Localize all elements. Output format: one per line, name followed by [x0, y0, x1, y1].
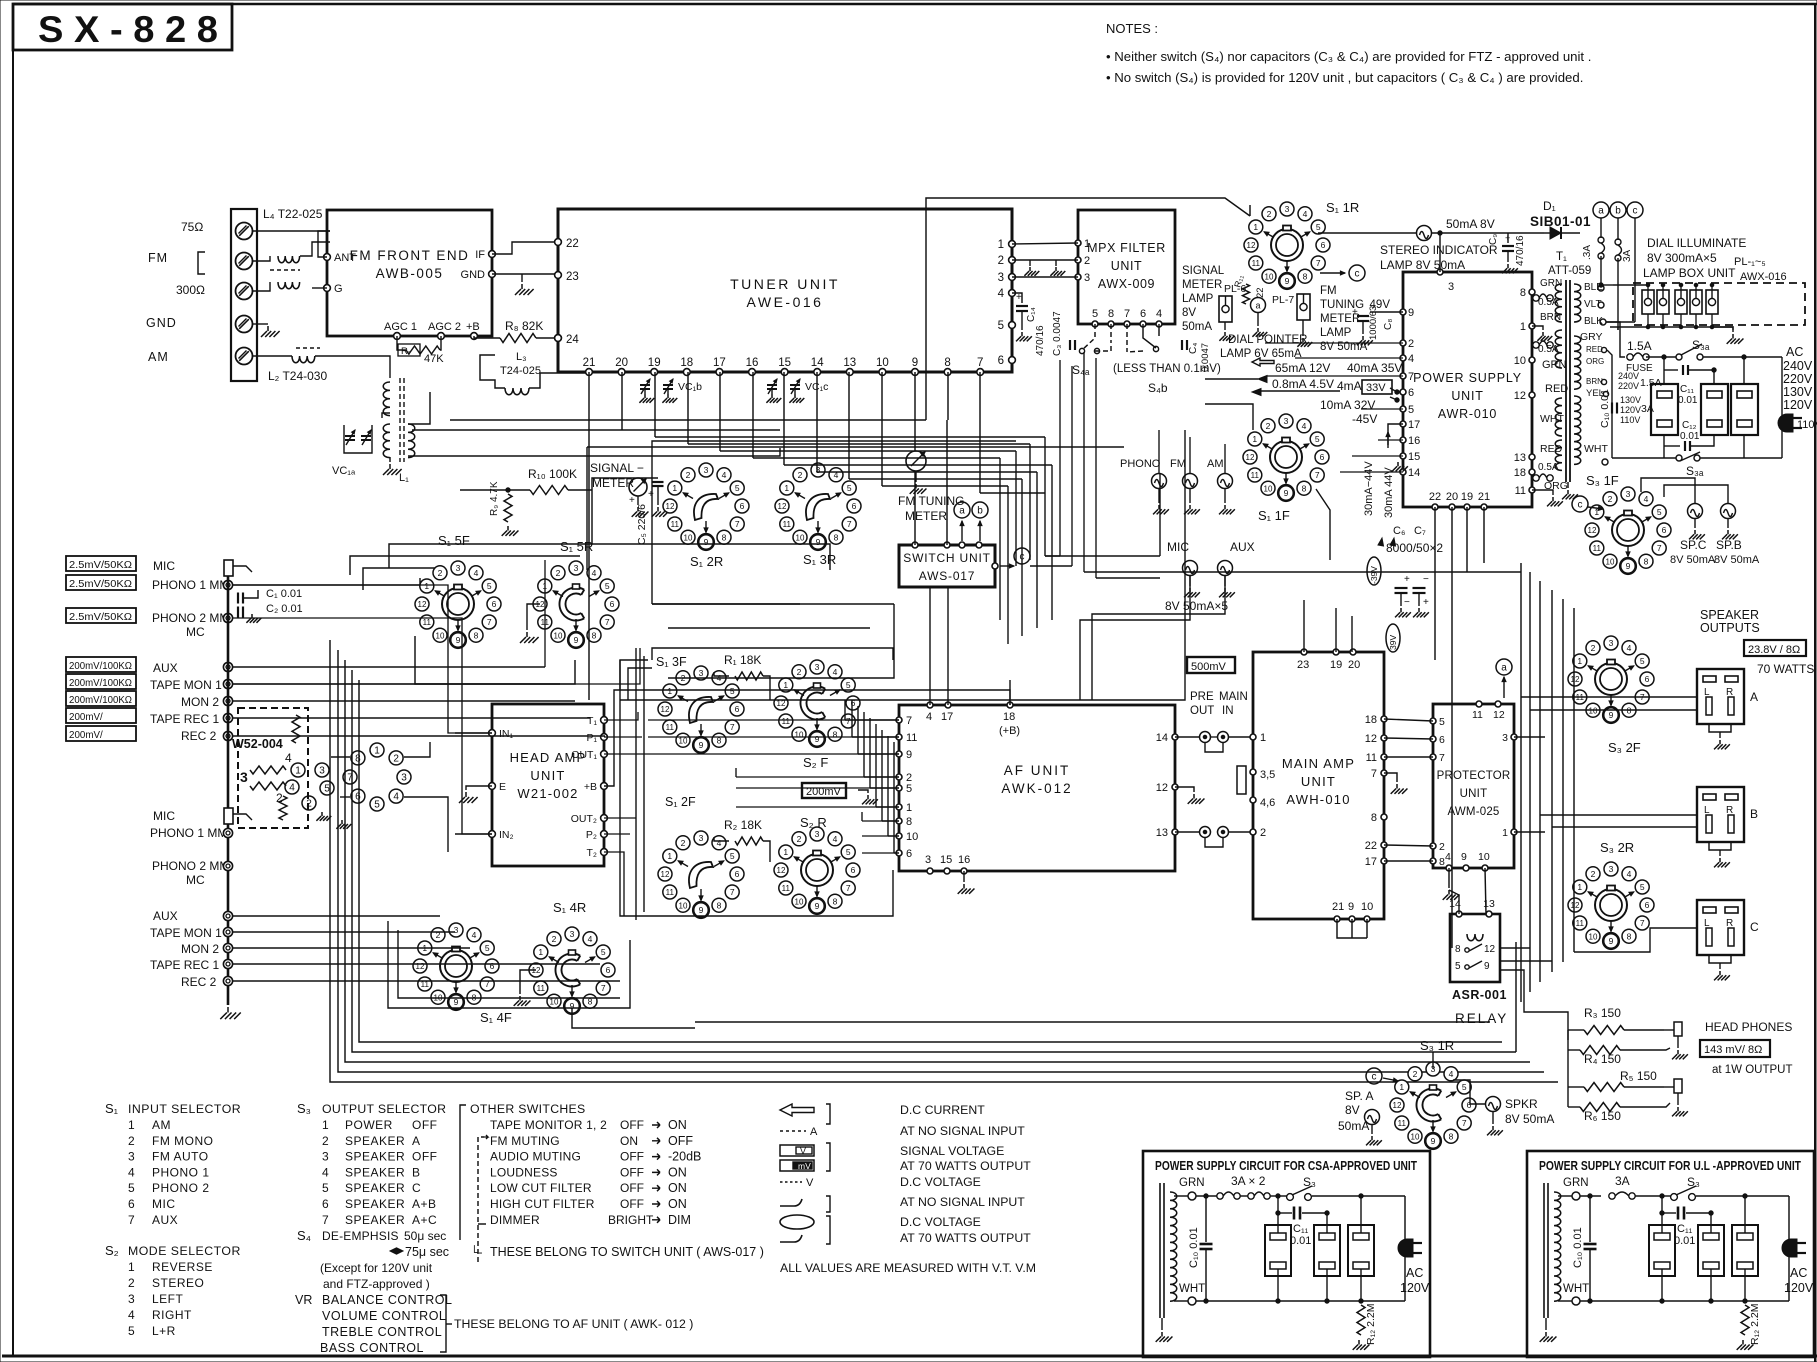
svg-text:LAMP 8V 50mA: LAMP 8V 50mA [1380, 258, 1465, 272]
svg-text:AUX: AUX [152, 1213, 178, 1227]
svg-text:R₁₀ 100K: R₁₀ 100K [528, 467, 577, 481]
ground main amp 7 [1384, 773, 1397, 782]
svg-text:MON 2: MON 2 [181, 695, 219, 709]
psu C10 cap [1204, 1194, 1208, 1198]
speaker box C [1697, 900, 1744, 955]
svg-text:S₁ 4R: S₁ 4R [553, 900, 586, 915]
svg-text:GND: GND [146, 316, 177, 330]
svg-text:300Ω: 300Ω [176, 283, 205, 297]
svg-text:6: 6 [735, 704, 740, 714]
svg-text:AT NO SIGNAL INPUT: AT NO SIGNAL INPUT [900, 1124, 1025, 1138]
svg-text:1: 1 [128, 1260, 135, 1274]
svg-text:PL-₁~₅: PL-₁~₅ [1734, 256, 1766, 268]
svg-text:SPEAKER: SPEAKER [1700, 608, 1759, 622]
svg-text:120V: 120V [1400, 1281, 1430, 1295]
svg-text:6: 6 [610, 599, 615, 609]
wire S4a area verticals down [1059, 360, 1061, 556]
svg-text:7: 7 [906, 715, 912, 727]
svg-text:PHONO 2 MM: PHONO 2 MM [152, 611, 229, 625]
svg-text:15: 15 [1408, 451, 1420, 463]
svg-text:S₁ 2F: S₁ 2F [665, 795, 696, 809]
svg-text:8: 8 [833, 896, 838, 906]
svg-text:4: 4 [472, 930, 477, 940]
switch symbols near pin 6 [1395, 390, 1399, 394]
svg-text:POWER: POWER [345, 1118, 393, 1132]
svg-text:12: 12 [1493, 709, 1505, 721]
power supply unit AWR-010 [1403, 272, 1532, 507]
svg-text:SPKR: SPKR [1505, 1097, 1538, 1111]
svg-text:5: 5 [1455, 961, 1461, 972]
power supply bottom pins [1432, 504, 1438, 510]
svg-text:12: 12 [1246, 453, 1255, 462]
wires main amp to protector [1384, 719, 1433, 721]
svg-text:2: 2 [1260, 827, 1266, 839]
svg-text:SP. A: SP. A [1345, 1089, 1373, 1103]
svg-text:8: 8 [1302, 483, 1307, 493]
svg-text:S₃ 1R: S₃ 1R [1420, 1038, 1454, 1053]
svg-text:OUTPUT SELECTOR: OUTPUT SELECTOR [322, 1102, 446, 1116]
capacitors C1 C2 [237, 593, 239, 604]
svg-text:7: 7 [322, 1213, 329, 1227]
wire bundle tops to S3 1F [1487, 560, 1521, 563]
svg-text:UNIT: UNIT [1460, 788, 1488, 800]
svg-text:c: c [1578, 500, 1583, 511]
svg-text:220V: 220V [1618, 381, 1639, 391]
svg-text:240V: 240V [1618, 371, 1639, 381]
svg-text:.3A: .3A [1582, 245, 1593, 260]
svg-text:50mA: 50mA [1338, 1119, 1369, 1133]
svg-text:11: 11 [1515, 485, 1526, 497]
svg-text:8V 50mA: 8V 50mA [1670, 554, 1716, 566]
svg-text:ATT-059: ATT-059 [1548, 265, 1591, 277]
svg-text:2.5mV/50KΩ: 2.5mV/50KΩ [69, 612, 132, 623]
svg-text:10: 10 [906, 831, 918, 843]
wire verticals feeding AF pins [844, 700, 846, 720]
protector unit AWM-025 [1433, 704, 1514, 868]
svg-text:47K: 47K [424, 353, 444, 365]
svg-text:10: 10 [679, 736, 688, 745]
svg-text:2: 2 [681, 838, 686, 848]
svg-text:9: 9 [704, 537, 709, 547]
svg-text:FM MUTING: FM MUTING [490, 1134, 560, 1148]
svg-text:MON 2: MON 2 [181, 942, 219, 956]
wire speakers A B C feeds [1574, 928, 1697, 952]
svg-text:1: 1 [667, 686, 672, 696]
svg-text:LEFT: LEFT [152, 1292, 184, 1306]
svg-text:33V: 33V [1366, 382, 1386, 394]
svg-text:R₁ 18K: R₁ 18K [724, 653, 761, 667]
svg-text:4: 4 [1644, 494, 1649, 504]
svg-text:4: 4 [1627, 643, 1632, 653]
svg-text:12: 12 [1393, 1101, 1402, 1110]
svg-text:AUX: AUX [153, 909, 178, 923]
main amp bottom pins [1334, 916, 1340, 922]
svg-text:8V 300mA×5: 8V 300mA×5 [1647, 251, 1717, 265]
wire S1 1F loop bottom [1079, 620, 1081, 700]
svg-text:39V: 39V [1388, 635, 1398, 650]
svg-text:R₄ 150: R₄ 150 [1584, 1052, 1621, 1066]
svg-text:1: 1 [1084, 238, 1090, 250]
svg-text:└-: └- [470, 1245, 483, 1259]
svg-text:GND: GND [461, 269, 486, 281]
svg-text:3: 3 [1502, 732, 1508, 744]
trimmer VC1a [344, 425, 372, 453]
svg-text:S₁ 2R: S₁ 2R [690, 554, 723, 569]
legend dc current arrow [780, 1104, 814, 1116]
svg-text:PHONO 1 MM: PHONO 1 MM [150, 826, 227, 840]
svg-text:AUX: AUX [1230, 540, 1255, 554]
8-pin wires [331, 756, 350, 758]
FM front end unit AWB-005 [327, 210, 492, 336]
svg-text:BASS CONTROL: BASS CONTROL [320, 1341, 424, 1355]
svg-text:T24-025: T24-025 [500, 365, 541, 377]
wire relay to headphones [1500, 970, 1568, 1040]
svg-text:6: 6 [1321, 240, 1326, 250]
wire AF left pin feeds [648, 719, 899, 721]
svg-text:NOTES :: NOTES : [1106, 21, 1158, 36]
svg-text:1: 1 [667, 851, 672, 861]
svg-text:PRE: PRE [1190, 691, 1214, 703]
svg-text:RED: RED [1545, 383, 1568, 395]
svg-text:9: 9 [912, 357, 918, 369]
wire b fuse to BLK [1617, 327, 1619, 330]
svg-text:10: 10 [1478, 851, 1490, 863]
svg-text:4: 4 [588, 934, 593, 944]
wire S1 1F loop left [1045, 555, 1160, 557]
svg-text:FM: FM [148, 251, 168, 265]
svg-text:11: 11 [1593, 544, 1602, 553]
psu lamp boxes [1265, 1225, 1291, 1276]
svg-text:3: 3 [925, 854, 931, 866]
switch unit AWS-017 [899, 545, 995, 587]
svg-text:3: 3 [1609, 864, 1614, 874]
svg-text:120V: 120V [1784, 1281, 1814, 1295]
svg-text:S₃ 2F: S₃ 2F [1608, 740, 1641, 755]
svg-text:3: 3 [454, 925, 459, 935]
mic arrow lower [233, 814, 252, 820]
svg-text:22: 22 [1429, 491, 1441, 503]
wire right vertical bundle [1520, 563, 1522, 1002]
svg-text:10: 10 [796, 533, 805, 542]
switch S4a dashed [1082, 324, 1095, 350]
svg-text:OFF: OFF [668, 1134, 693, 1148]
svg-text:2: 2 [1591, 643, 1596, 653]
svg-text:C₈: C₈ [1383, 319, 1394, 330]
svg-text:9: 9 [1284, 488, 1289, 498]
AF unit bottom pins [927, 868, 933, 874]
svg-text:9: 9 [1408, 307, 1414, 319]
svg-text:200mV/100KΩ: 200mV/100KΩ [69, 678, 132, 689]
wire phono mic feeds upper [233, 578, 420, 585]
svg-text:1: 1 [783, 680, 788, 690]
wire phono lower feeds [233, 832, 455, 833]
svg-text:6: 6 [1439, 734, 1445, 746]
psu bottom bus [1580, 1300, 1789, 1302]
svg-text:18: 18 [1514, 467, 1526, 479]
rotary switch S1 2F [663, 849, 677, 863]
svg-text:1: 1 [1502, 827, 1508, 839]
svg-text:8: 8 [1644, 556, 1649, 566]
psu C10 cap [1588, 1194, 1592, 1198]
psu transformer [1543, 1183, 1545, 1318]
svg-text:G: G [334, 283, 343, 295]
svg-text:LAMP BOX UNIT: LAMP BOX UNIT [1643, 266, 1736, 280]
svg-text:c: c [1355, 269, 1360, 280]
svg-text:70 WATTS: 70 WATTS [1757, 662, 1814, 676]
svg-text:19: 19 [648, 357, 661, 369]
svg-text:11: 11 [1398, 1119, 1407, 1128]
svg-text:AWE-016: AWE-016 [747, 294, 824, 310]
svg-text:11: 11 [666, 723, 675, 732]
svg-text:ON: ON [668, 1118, 687, 1132]
svg-text:8: 8 [1108, 308, 1114, 320]
wires head amp in [455, 732, 492, 734]
svg-text:OUTPUTS: OUTPUTS [1700, 621, 1760, 635]
T1 left winding [1555, 284, 1562, 322]
svg-text:TUNER UNIT: TUNER UNIT [730, 276, 840, 292]
svg-text:REC 2: REC 2 [181, 729, 217, 743]
resistor R9 4.7K [506, 488, 510, 492]
svg-text:OFF: OFF [620, 1197, 644, 1211]
svg-text:VLT: VLT [1584, 299, 1602, 310]
svg-text:AWS-017: AWS-017 [919, 569, 976, 583]
svg-text:S₂ F: S₂ F [803, 755, 828, 770]
svg-text:5: 5 [485, 943, 490, 953]
svg-text:7: 7 [847, 519, 852, 529]
svg-text:6: 6 [606, 965, 611, 975]
svg-text:+: + [1016, 292, 1022, 303]
AC plug [1778, 414, 1793, 432]
routing rectangle S1 2R 3R group [652, 441, 1016, 604]
svg-text:8V: 8V [1182, 307, 1196, 319]
speaker rating box [1744, 640, 1806, 656]
svg-text:UNIT: UNIT [1111, 259, 1143, 273]
svg-text:HIGH CUT FILTER: HIGH CUT FILTER [490, 1197, 595, 1211]
svg-text:C₁₀ 0.01: C₁₀ 0.01 [1572, 1227, 1584, 1268]
svg-text:FM: FM [1320, 285, 1337, 297]
svg-text:12: 12 [1514, 390, 1526, 402]
svg-text:+B: +B [466, 321, 480, 333]
psu lamp wires [1277, 1213, 1279, 1233]
svg-text:8: 8 [1371, 812, 1377, 824]
svg-text:LOW CUT FILTER: LOW CUT FILTER [490, 1181, 592, 1195]
svg-text:15: 15 [940, 854, 952, 866]
svg-text:AUX: AUX [153, 661, 178, 675]
rotary switch S1 4F [418, 941, 432, 955]
svg-text:IF: IF [475, 249, 485, 261]
ground S1 5R pin12 [527, 604, 540, 630]
svg-text:ON: ON [668, 1181, 687, 1195]
AF unit AWK-012 [899, 705, 1175, 871]
svg-text:S₃ 2R: S₃ 2R [1600, 840, 1634, 855]
wire head amp T P OUT to 3F [604, 712, 638, 720]
svg-text:0.01: 0.01 [1674, 1235, 1695, 1247]
svg-text:W52-004: W52-004 [232, 737, 283, 751]
terminal c arrow from S1 1R [1320, 272, 1345, 274]
svg-text:8: 8 [1627, 931, 1632, 941]
svg-text:C₁₄: C₁₄ [1026, 307, 1037, 322]
svg-text:(Except for 120V unit: (Except for 120V unit [320, 1261, 433, 1275]
svg-text:5: 5 [1439, 716, 1445, 728]
svg-text:T₁: T₁ [587, 715, 597, 727]
svg-text:9: 9 [1431, 1136, 1436, 1146]
svg-text:2: 2 [998, 255, 1004, 267]
svg-text:OFF: OFF [620, 1181, 644, 1195]
svg-text:3: 3 [240, 769, 248, 785]
svg-text:LAMP 6V 65mA: LAMP 6V 65mA [1220, 348, 1302, 360]
ground right of 200mV box [858, 790, 868, 793]
svg-text:7: 7 [1640, 918, 1645, 928]
svg-text:LAMP: LAMP [1182, 293, 1214, 305]
svg-text:P₁: P₁ [586, 732, 597, 744]
wires tuner to MPX [1012, 243, 1078, 244]
svg-text:2: 2 [1267, 209, 1272, 219]
svg-text:UNIT: UNIT [530, 768, 565, 783]
rotary switch S3 1R [1395, 1080, 1409, 1094]
8-pin connector grounds [336, 820, 351, 829]
svg-text:4: 4 [833, 834, 838, 844]
svg-text:BRN: BRN [1540, 312, 1561, 323]
svg-text:VOLUME CONTROL: VOLUME CONTROL [322, 1309, 446, 1323]
svg-text:1: 1 [998, 239, 1004, 251]
svg-text:1: 1 [672, 483, 677, 493]
svg-text:8: 8 [592, 630, 597, 640]
svg-text:2: 2 [797, 667, 802, 677]
svg-text:ON: ON [668, 1165, 687, 1179]
svg-text:ASR-001: ASR-001 [1452, 988, 1507, 1002]
jack pair top [1200, 732, 1211, 743]
svg-text:C: C [1750, 920, 1759, 934]
legend curve at no signal [780, 1199, 802, 1206]
svg-text:17: 17 [1365, 856, 1377, 868]
svg-text:4: 4 [717, 838, 722, 848]
svg-text:1: 1 [1520, 321, 1526, 333]
svg-text:4: 4 [322, 1165, 329, 1179]
svg-text:OUT₂: OUT₂ [571, 813, 597, 825]
svg-text:11: 11 [1472, 709, 1483, 721]
svg-text:S₂ R: S₂ R [800, 815, 827, 830]
svg-text:1.5A: 1.5A [1627, 339, 1652, 353]
svg-text:200mV/100KΩ: 200mV/100KΩ [69, 695, 132, 706]
psu transformer [1159, 1183, 1161, 1318]
resistors in W52-004 [250, 766, 286, 774]
svg-text:C₁₂: C₁₂ [1682, 420, 1697, 431]
svg-text:RELAY: RELAY [1455, 1011, 1508, 1026]
svg-text:ON: ON [620, 1134, 638, 1148]
svg-text:470/16: 470/16 [1035, 325, 1046, 356]
svg-text:12: 12 [1156, 782, 1168, 794]
power supply left pins [1400, 309, 1406, 315]
svg-text:UNIT: UNIT [1301, 774, 1336, 789]
svg-text:WHT: WHT [1179, 1283, 1205, 1295]
svg-text:S₃: S₃ [297, 1101, 311, 1116]
svg-text:14: 14 [811, 357, 824, 369]
svg-text:REVERSE: REVERSE [152, 1260, 213, 1274]
svg-text:21: 21 [583, 357, 596, 369]
svg-text:3: 3 [1609, 638, 1614, 648]
svg-text:30mA 44V: 30mA 44V [1383, 467, 1395, 518]
legend at no signal A [780, 1130, 806, 1132]
mic arrow upper [233, 566, 252, 572]
svg-text:13: 13 [843, 357, 856, 369]
routing rectangle S1 3F 2F group [620, 660, 652, 916]
svg-text:4: 4 [128, 1308, 135, 1322]
svg-text:5: 5 [128, 1181, 135, 1195]
svg-text:7: 7 [601, 983, 606, 993]
svg-text:-20dB: -20dB [668, 1150, 701, 1164]
svg-text:5: 5 [998, 320, 1004, 332]
svg-text:6: 6 [740, 501, 745, 511]
svg-text:SPEAKER: SPEAKER [345, 1197, 405, 1211]
tuner bottom pins [586, 369, 593, 376]
svg-text:9: 9 [816, 537, 821, 547]
svg-text:5: 5 [128, 1324, 135, 1338]
svg-text:OFF: OFF [620, 1118, 644, 1132]
svg-text:200mV/: 200mV/ [69, 712, 103, 723]
wire relay area links [1466, 868, 1516, 890]
svg-text:1: 1 [1577, 656, 1582, 666]
svg-text:30mA−44V: 30mA−44V [1363, 461, 1375, 516]
svg-text:9: 9 [1484, 961, 1490, 972]
svg-text:5: 5 [1657, 507, 1662, 517]
svg-text:7: 7 [1408, 371, 1414, 383]
svg-text:15: 15 [778, 357, 791, 369]
rotary switch S1 4R [534, 945, 548, 959]
svg-text:6: 6 [852, 501, 857, 511]
power supply right pins [1529, 289, 1535, 295]
svg-text:OFF: OFF [620, 1150, 644, 1164]
svg-text:6: 6 [1140, 308, 1146, 320]
svg-text:21: 21 [1478, 491, 1490, 503]
power supply circuit box [1527, 1151, 1814, 1357]
svg-text:2: 2 [798, 470, 803, 480]
impedance spec boxes upper [66, 556, 136, 571]
psu R12 [1357, 1305, 1365, 1335]
svg-text:0.5A: 0.5A [1538, 297, 1559, 308]
svg-text:S₁ 1F: S₁ 1F [1258, 508, 1290, 523]
svg-text:22: 22 [1365, 840, 1377, 852]
ground AF bottom [963, 871, 965, 882]
svg-text:16: 16 [1408, 435, 1420, 447]
svg-text:L₂ T24-030: L₂ T24-030 [268, 369, 327, 383]
MPX left pins [1075, 240, 1081, 246]
svg-text:0.01: 0.01 [1290, 1235, 1311, 1247]
svg-text:8V 50mA: 8V 50mA [1505, 1112, 1554, 1126]
svg-text:C₆: C₆ [1393, 525, 1405, 537]
ground S1 4R [520, 970, 536, 994]
wire IF GND to tuner [492, 242, 558, 254]
svg-text:3: 3 [570, 929, 575, 939]
psu lamp wires [1661, 1213, 1663, 1233]
wire mesh verticals right [1044, 437, 1046, 556]
svg-text:50mA: 50mA [1182, 321, 1212, 333]
main amp left pins [1250, 734, 1256, 740]
selector boxes [1651, 384, 1678, 435]
svg-text:AT 70 WATTS OUTPUT: AT 70 WATTS OUTPUT [900, 1231, 1031, 1245]
svg-text:C₂ 0.01: C₂ 0.01 [266, 603, 303, 615]
svg-text:1: 1 [424, 581, 429, 591]
svg-text:1: 1 [1253, 222, 1258, 232]
arrows voltage [1258, 376, 1267, 383]
input terminal circles lower [224, 808, 233, 824]
svg-text:17: 17 [941, 711, 953, 723]
wire lamp box bottom bus [1610, 326, 1713, 328]
svg-text:OUT₁: OUT₁ [571, 749, 597, 761]
svg-text:THESE BELONG TO SWITCH UNIT: THESE BELONG TO SWITCH UNIT ( AWS-017 ) [490, 1245, 764, 1259]
svg-text:5: 5 [1462, 1082, 1467, 1092]
svg-text:4: 4 [474, 568, 479, 578]
trimmer VC1c [767, 384, 777, 386]
